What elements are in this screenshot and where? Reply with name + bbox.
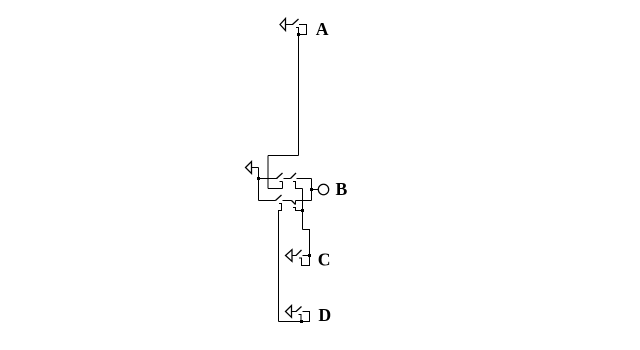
svg-text:B: B [336, 179, 348, 199]
svg-text:A: A [316, 19, 329, 39]
svg-text:D: D [318, 305, 331, 325]
svg-text:C: C [318, 250, 331, 270]
